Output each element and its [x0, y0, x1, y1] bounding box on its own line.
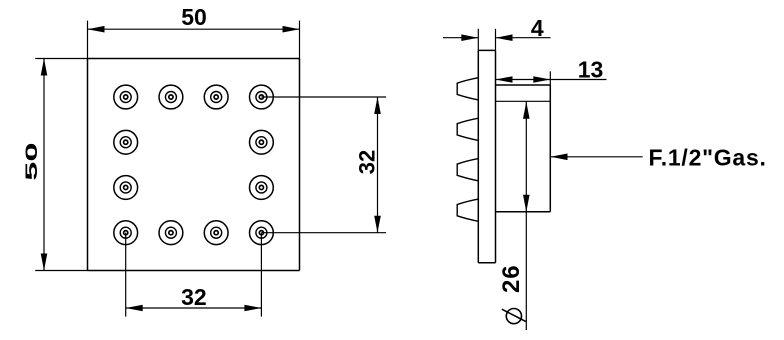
- svg-text:4: 4: [531, 15, 544, 41]
- svg-text:50: 50: [22, 142, 41, 180]
- svg-text:32: 32: [181, 284, 207, 310]
- svg-text:32: 32: [355, 150, 380, 174]
- svg-text:26: 26: [498, 264, 525, 293]
- svg-text:F.1/2"Gas.: F.1/2"Gas.: [649, 145, 767, 171]
- svg-text:50: 50: [181, 4, 207, 30]
- svg-text:13: 13: [578, 56, 604, 82]
